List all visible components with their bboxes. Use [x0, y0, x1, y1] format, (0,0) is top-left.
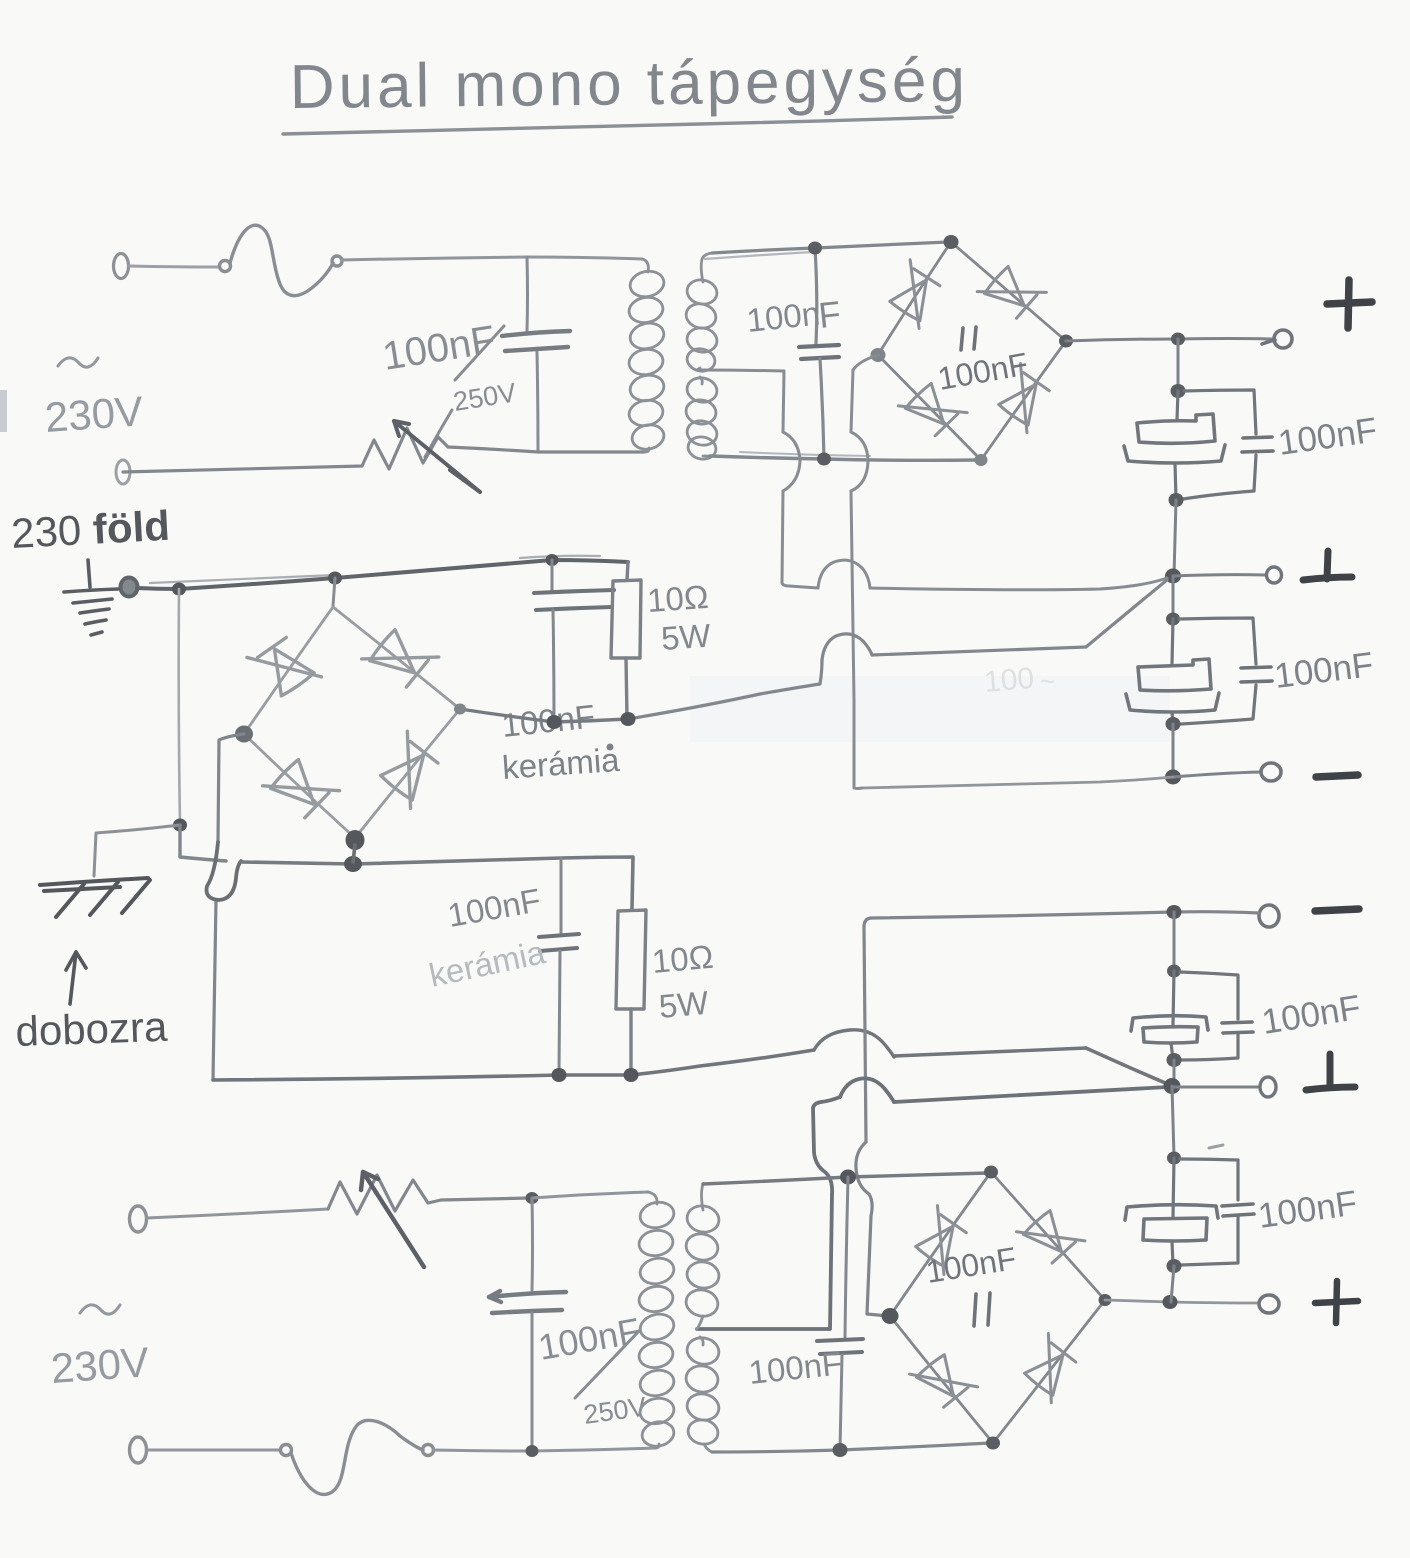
electrolytic E4 lead bottom: [1172, 1241, 1173, 1265]
wire minusB rail from terminal: [856, 912, 1174, 1316]
node dot snubB cap bottom: [552, 1068, 567, 1082]
wire stub bridge2 top: [333, 578, 335, 606]
varistor RV2: [328, 1175, 530, 1214]
wire gndB down to elko4: [1172, 1086, 1174, 1157]
label 100nF E1: [1276, 410, 1380, 462]
node dot snubA res bottom: [621, 712, 636, 726]
electrolytic E2 lead top: [1172, 619, 1173, 664]
wire left vertical light: [179, 589, 180, 824]
electrolytic E4 positive plate box: [1143, 1218, 1207, 1241]
minusB output terminal: [1259, 905, 1279, 927]
electrolytic E2 lead bottom: [1172, 712, 1173, 724]
node dot minusB: [1167, 905, 1182, 919]
electrolytic E3 negative bracket: [1131, 1016, 1208, 1031]
resistor R2 10R 5W: [616, 910, 646, 1074]
ghost erased marks: [983, 662, 1055, 699]
label - (minusB): [1315, 909, 1359, 911]
node dot bridge B3 top: [984, 1166, 998, 1179]
dobozra arrow: [66, 952, 86, 1004]
wire varistor to T2 primary: [532, 1192, 648, 1198]
diode D12: [1016, 1334, 1084, 1403]
label 100nF E2: [1272, 645, 1375, 696]
node dot elko1 bottom: [1169, 493, 1184, 507]
input terminal J2a: [130, 1206, 147, 1232]
label 100nF bridge B3: [923, 1240, 1018, 1290]
svg-text:F: F: [817, 293, 843, 336]
node dot elko4 top: [1167, 1152, 1181, 1165]
svg-text:230V: 230V: [43, 387, 144, 441]
node dot bridge2 bottom wire: [344, 856, 362, 872]
wire hook curl: [207, 842, 242, 900]
transformer T2 secondary bottom winding: [684, 1335, 721, 1452]
transformer T2 primary winding: [637, 1192, 676, 1449]
node dot secB bottom: [833, 1443, 848, 1457]
gndB output terminal: [1260, 1077, 1276, 1097]
capacitor C8 plates: [489, 1291, 566, 1313]
wire gndA to elko2: [1172, 576, 1175, 619]
label 100nF/250V B: [535, 1310, 648, 1430]
bridge B3 edges: [890, 1172, 1105, 1443]
node dot +A rail: [1171, 333, 1185, 346]
resistor R1 10R 5W: [611, 562, 641, 718]
wire snubberB top rail: [241, 857, 633, 909]
label 100n F: [745, 293, 843, 339]
electrolytic E4 negative bracket: [1125, 1205, 1218, 1220]
node dot +B rail: [1163, 1295, 1178, 1309]
chassis ground symbol: [40, 878, 150, 917]
capacitor C11 plates: [1222, 1022, 1253, 1033]
diode D2: [977, 258, 1046, 326]
wire to minusA terminal: [1173, 772, 1260, 777]
varistor RV2 arrow: [361, 1172, 424, 1267]
node dot snubB res bottom: [624, 1068, 639, 1082]
wire J2a to varistor: [147, 1209, 328, 1218]
diode D5: [247, 629, 322, 706]
node dot elko2 bottom: [1166, 717, 1181, 731]
wire secondary bottom rail to bridge bottom: [710, 456, 978, 460]
label + (bottom): [1315, 1281, 1358, 1323]
wire elko2 to minusA: [1172, 724, 1175, 777]
label gnd symbol (bottom): [1306, 1054, 1355, 1090]
label + (top): [1327, 280, 1372, 328]
capacitor C8 lead bottom: [531, 1313, 534, 1451]
wire T2 secondary top to bridge B3: [703, 1173, 988, 1184]
capacitor C4 plates: [1242, 437, 1273, 452]
svg-text:5W: 5W: [660, 617, 713, 657]
earth ground symbol: [64, 560, 118, 635]
capacitor C2 plates: [799, 345, 839, 359]
node dot gndB junction: [1164, 1078, 1181, 1094]
diode D3: [898, 375, 967, 444]
node dot cap bottom: [817, 453, 831, 466]
capacitor C7 keramia B lead top: [560, 858, 563, 933]
diode D8: [371, 731, 447, 808]
node dot bridge B3 left: [882, 1308, 899, 1324]
capacitor C12 plates: [1222, 1204, 1254, 1216]
diode D7: [263, 750, 340, 827]
node dot capB bottom: [526, 1445, 539, 1457]
electrolytic E1 lead bottom: [1175, 463, 1176, 499]
capacitor C11 100nF loop: [1180, 972, 1238, 1060]
capacitor C5 100nF loop: [1179, 618, 1256, 724]
label 100nF/250V: [380, 318, 519, 417]
wire to gndA terminal: [1173, 575, 1266, 576]
wire doubling stroke: [705, 252, 813, 259]
input terminal J2b: [130, 1437, 147, 1463]
+A output terminal: [1262, 330, 1292, 348]
label - (minusA): [1316, 775, 1358, 777]
earth ground terminal: [121, 578, 138, 597]
node dot capB top: [526, 1192, 539, 1204]
node dot bridge left: [871, 348, 886, 362]
varistor RV1: [123, 428, 644, 472]
label dobozra: [15, 1003, 169, 1055]
node dot elko4 bottom: [1167, 1259, 1182, 1273]
wire to chassis ground: [94, 825, 180, 876]
svg-text:230 föld: 230 föld: [10, 502, 171, 557]
node dot snubA cap bottom: [547, 715, 562, 729]
capacitor C2 lead bottom: [820, 359, 824, 459]
diode D1: [881, 260, 947, 329]
svg-text:~: ~: [1040, 666, 1055, 696]
capacitor C6 keramia A lead top: [551, 560, 554, 590]
label ~230V (bottom input): [80, 1305, 120, 1314]
wire bridge to +A terminal: [1066, 339, 1272, 342]
label 10R 5W B: [650, 938, 714, 1025]
input terminal J1b: [116, 460, 130, 484]
node dot secB top: [840, 1170, 856, 1185]
wire elko3 to gndB: [1173, 1060, 1176, 1086]
svg-text:230V: 230V: [49, 1338, 150, 1392]
dot after label: [607, 744, 614, 751]
diode D11: [910, 1346, 978, 1415]
wire minusB terminal stub: [1174, 912, 1259, 913]
node dot bridge right: [1059, 335, 1073, 348]
bridge B1 edges: [878, 242, 1066, 460]
wire J2b to fuse: [147, 1449, 280, 1452]
wire elko1 to gnd rail: [1174, 500, 1176, 576]
wire fuse to T2 bottom: [433, 1448, 655, 1451]
svg-text:Dual mono tápegység: Dual mono tápegység: [289, 46, 969, 122]
input terminal J1a: [114, 254, 129, 279]
transformer T2 secondary top winding: [683, 1184, 721, 1329]
wire tap A to gnd rail: [697, 370, 1167, 590]
diode D4: [990, 364, 1057, 433]
node dot elko3 bottom: [1167, 1053, 1182, 1067]
electrolytic E1 negative bracket: [1124, 445, 1225, 463]
electrolytic E3 positive plate box: [1143, 1027, 1198, 1043]
diode D6: [362, 620, 439, 696]
ground rail wire: [137, 560, 628, 589]
svg-text:100: 100: [983, 662, 1036, 699]
wire fuse to transformer T1 primary: [342, 257, 642, 260]
label 230 fold: [10, 502, 171, 557]
capacitor C8 100nF/250V lead top: [531, 1198, 535, 1290]
title: Dual mono tapegyseg: [289, 46, 969, 122]
capacitor C4 100nF loop: [1183, 390, 1256, 499]
svg-text:10Ω: 10Ω: [650, 938, 714, 980]
capacitor C7 plates: [539, 934, 579, 951]
node dot gndA junction: [1165, 569, 1181, 584]
svg-text:10Ω: 10Ω: [646, 578, 710, 619]
node dot bridge2 bottom: [346, 830, 365, 850]
label 10R 5W: [646, 578, 713, 657]
gndA output terminal: [1267, 567, 1282, 583]
node dot minusA: [1165, 770, 1181, 785]
capacitor C9 plates: [817, 1339, 863, 1354]
electrolytic E1 lead top: [1177, 391, 1178, 420]
capacitor C12 100nF loop: [1180, 1159, 1238, 1265]
node dot bridge B3 bottom: [986, 1437, 1000, 1450]
wire minusA feed from bridge left rail: [862, 777, 1173, 788]
wire bridge B3 to +B terminal: [1105, 1300, 1258, 1303]
electrolytic E3 lead top: [1173, 971, 1174, 1025]
varistor RV1 arrow: [394, 421, 480, 492]
wire +A rail down: [1177, 339, 1180, 391]
svg-text:dobozra: dobozra: [15, 1003, 169, 1055]
capacitor C6 lead bottom: [553, 610, 554, 721]
transformer T1 secondary top winding: [684, 253, 719, 374]
node dot elko3 top: [1167, 965, 1181, 978]
capacitor C7 lead bottom: [559, 951, 560, 1074]
wire tapB rail to gndB: [697, 1078, 1168, 1329]
node dot bridge top: [944, 235, 959, 249]
wire to gndB terminal: [1172, 1086, 1258, 1089]
capacitor C3 inside bridge: [961, 327, 976, 350]
wire left vertical to snubberB rail: [180, 825, 226, 861]
wire secB bottom rail: [712, 1443, 990, 1452]
node dot secondary top: [808, 242, 822, 255]
wire bridge2 left down: [213, 734, 244, 1080]
electrolytic E2 negative bracket: [1126, 693, 1219, 712]
electrolytic E2 positive plate box: [1138, 659, 1211, 691]
+B output terminal: [1259, 1295, 1279, 1313]
node dot bridge2 right: [454, 704, 466, 715]
label 100nF keramia: [500, 697, 621, 786]
label 100nF keramia B: [445, 881, 544, 934]
label 100nF E3: [1259, 988, 1363, 1042]
capacitor C1 lead bottom: [537, 352, 538, 452]
fuse F2: [281, 1420, 434, 1494]
label gnd symbol (top): [1303, 551, 1352, 580]
electrolytic E4 lead top: [1173, 1158, 1174, 1217]
diode D10: [1016, 1202, 1085, 1271]
wire snubberB bottom rail: [213, 1050, 814, 1080]
node dot elko1 top: [1171, 384, 1186, 398]
electrolytic E1 positive plate box: [1137, 414, 1215, 443]
wire hop over minusB rail: [814, 1030, 1086, 1057]
capacitor C1 100nF/250V lead top: [526, 257, 530, 331]
capacitor C9 100nF secB lead top: [845, 1177, 848, 1337]
minusA output terminal: [1261, 763, 1281, 781]
node dot rail left: [172, 583, 186, 596]
node dot bridge bottom: [975, 454, 988, 466]
node dot snubA cap top: [546, 554, 559, 566]
fuse F1: [220, 225, 343, 295]
capacitor C6 plates: [534, 590, 614, 610]
label 100nF E4: [1256, 1183, 1360, 1235]
capacitor C5 plates: [1241, 667, 1272, 682]
node dot left vertical bottom: [173, 819, 187, 832]
wire J1a to fuse: [129, 266, 219, 267]
title underline: [283, 117, 952, 134]
stray pencil dash: [1209, 1145, 1223, 1148]
capacitor C10 inside bridge B3: [974, 1293, 990, 1326]
wire stub bridge2 bottom: [353, 845, 355, 862]
wire diagonal into gndB: [1086, 1048, 1170, 1085]
capacitor C2 100nF secondary lead top: [815, 248, 817, 344]
node dot bridge2 left: [235, 726, 253, 743]
node dot bridge2 top: [328, 572, 342, 585]
diode D9: [907, 1206, 974, 1275]
transformer T1 secondary bottom winding: [684, 375, 719, 461]
node dot bridge B3 right: [1099, 1294, 1112, 1306]
bridge B2 edges: [244, 607, 460, 838]
wire minusB down to elko3: [1173, 912, 1176, 970]
transformer T1 primary winding: [627, 259, 667, 452]
svg-text:100n: 100n: [745, 294, 822, 338]
wire bridge left node down rail: [851, 355, 878, 789]
wire snubberA bottom to gndA (hop): [628, 580, 1167, 719]
capacitor C1 plates: [502, 331, 570, 351]
label ~230V (top input): [58, 358, 98, 367]
label 100nF bridge: [935, 346, 1031, 397]
svg-text:5W: 5W: [657, 984, 710, 1025]
node dot elko2 top: [1166, 613, 1180, 626]
wire bridge2 right to snubA bottom: [460, 709, 628, 722]
capacitor C9 lead bottom: [840, 1355, 842, 1450]
wire secondary top to bridge B1: [712, 242, 948, 253]
label 100nF secB: [747, 1344, 844, 1391]
wire elko4 to +B rail: [1171, 1266, 1174, 1302]
electrolytic E3 lead bottom: [1171, 1043, 1173, 1059]
